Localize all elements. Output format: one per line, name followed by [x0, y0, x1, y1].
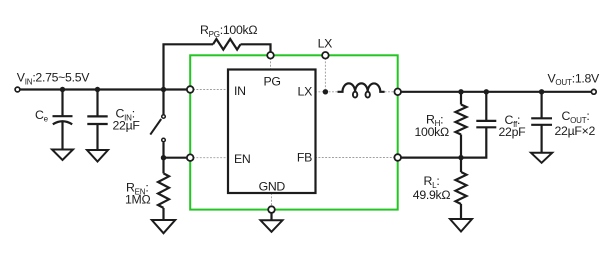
capacitor CIN — [87, 116, 107, 150]
resistor RL — [456, 158, 467, 219]
junction (EN/REN) — [161, 155, 166, 160]
terminal VIN — [15, 87, 20, 92]
ground (REN) — [152, 220, 175, 233]
svg-text:100kΩ: 100kΩ — [415, 125, 449, 139]
svg-text:22µF: 22µF — [113, 119, 141, 133]
ground (RL) — [450, 219, 472, 232]
wire: FB row boundary to divider — [398, 157, 461, 159]
junction (rail/COUT) — [539, 89, 544, 94]
svg-text:22µF×2: 22µF×2 — [555, 124, 596, 138]
wire: dashed EN pin to boundary — [193, 157, 228, 159]
wire: dashed GND pin to boundary — [271, 193, 273, 206]
node FB right (boundary) — [394, 154, 401, 161]
svg-text:IN: IN — [234, 84, 246, 98]
svg-text:22pF: 22pF — [499, 125, 527, 139]
switch S1 (enable) — [150, 90, 165, 158]
wire: Ce branch drop — [61, 90, 63, 117]
value label COUT — [555, 109, 596, 138]
ground (CIN) — [87, 150, 108, 162]
svg-text:GND: GND — [259, 180, 286, 194]
wire: dashed PG pin to boundary — [270, 58, 272, 70]
svg-text:PG: PG — [264, 74, 281, 88]
node EN (boundary) — [187, 154, 194, 161]
svg-text:LX: LX — [318, 37, 333, 51]
junction (rail/RPG/switch) — [161, 87, 166, 92]
junction (rail/RH) — [458, 89, 463, 94]
capacitor COUT — [531, 92, 552, 153]
wire: dashed LX node label drop — [324, 58, 326, 89]
layout boundary box (green) — [190, 55, 398, 209]
junction (rail/CIN) — [95, 87, 100, 92]
svg-text:LX: LX — [298, 85, 313, 99]
value label CIN — [113, 107, 141, 133]
ground (COUT) — [531, 153, 552, 163]
resistor REN — [158, 158, 169, 220]
capacitor Ce — [53, 116, 73, 149]
junction (rail/Ce) — [60, 87, 65, 92]
ground (GND pin) — [261, 213, 283, 232]
wire: output rail LX to VOUT — [398, 91, 594, 93]
svg-text:RPG:100kΩ: RPG:100kΩ — [200, 23, 257, 39]
wire: EN row to boundary — [164, 157, 191, 159]
svg-text:VIN:2.75~5.5V: VIN:2.75~5.5V — [17, 71, 90, 87]
IC U1 — [228, 70, 316, 194]
wire: dashed FB pin to boundary — [315, 157, 395, 159]
wire: dashed LX pin to inductor and boundary — [315, 91, 395, 93]
wire: CIN branch drop — [96, 90, 98, 117]
node LX top (boundary) — [322, 52, 329, 59]
svg-text:FB: FB — [297, 151, 312, 165]
terminal VOUT — [591, 89, 596, 94]
inductor L1 — [338, 83, 385, 97]
svg-text:Ce: Ce — [35, 108, 49, 124]
value label REN — [125, 181, 150, 207]
junction (rail/Cff) — [484, 89, 489, 94]
svg-text:VOUT:1.8V: VOUT:1.8V — [548, 71, 601, 87]
value label Cff — [499, 113, 527, 139]
junction (FB/divider) — [458, 155, 463, 160]
svg-text:COUT:: COUT: — [562, 109, 590, 125]
resistor RPG — [213, 39, 241, 50]
wire: dashed IN pin to boundary — [193, 89, 228, 91]
value label RL — [413, 174, 451, 202]
junction (LX node) — [323, 89, 328, 94]
ground (Ce) — [52, 150, 73, 161]
svg-text:49.9kΩ: 49.9kΩ — [413, 188, 451, 202]
node LX right (boundary) — [394, 89, 401, 96]
resistor RH — [456, 92, 467, 158]
node GND bottom (boundary) — [268, 206, 275, 213]
wire: input rail VIN — [18, 88, 191, 90]
node IN (boundary) — [187, 86, 194, 93]
wire: RPG branch up and over — [164, 44, 271, 89]
svg-text:EN: EN — [234, 152, 250, 166]
svg-text:1MΩ: 1MΩ — [125, 192, 150, 206]
value label RH — [415, 112, 449, 139]
capacitor Cff — [461, 92, 496, 158]
node PG (boundary) — [267, 52, 274, 59]
